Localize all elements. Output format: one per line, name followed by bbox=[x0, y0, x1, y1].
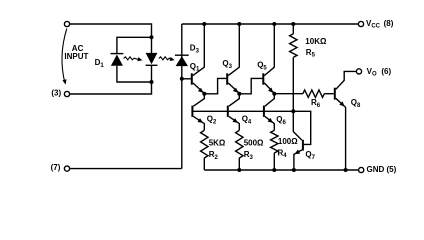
label AC INPUT bbox=[64, 44, 88, 61]
wire R3 to ground rail bbox=[238, 158, 240, 170]
wire common base line bbox=[193, 110, 293, 112]
node Q8-ground bbox=[344, 168, 348, 172]
wire LED box top edge bbox=[117, 36, 152, 38]
photodiode D3 (pointing up) bbox=[176, 56, 188, 66]
wire pin3 to LED cathode node bbox=[70, 82, 152, 94]
transistor Q8 (NPN output) bbox=[335, 71, 357, 170]
node emitter Q3 bbox=[237, 92, 241, 96]
wire LED right branch upper bbox=[151, 37, 153, 54]
AC input arrow arc bbox=[62, 29, 67, 85]
transistor Q1 (NPN) bbox=[192, 67, 205, 93]
wire collector drop Q1 bbox=[203, 24, 205, 68]
wire Vcc rail bbox=[182, 23, 359, 25]
diode D3 cathode bar bbox=[175, 54, 189, 56]
node rail-R5 bbox=[291, 22, 295, 26]
svg-text:10KΩ: 10KΩ bbox=[305, 37, 327, 46]
wire Q1 emitter to Q3 base bbox=[204, 78, 226, 93]
wire LED box bottom edge bbox=[117, 81, 152, 83]
svg-text:(6): (6) bbox=[381, 67, 391, 76]
node rail-Q5 bbox=[272, 22, 276, 26]
node D3-Q1 base junction bbox=[180, 77, 184, 81]
node R4-ground bbox=[272, 168, 276, 172]
resistor R4 body bbox=[271, 130, 278, 153]
wire collector drop Q5 bbox=[273, 24, 275, 68]
wire R5 lower lead bbox=[292, 57, 294, 111]
transistor Q7 (diode-connected NPN, mirrored) bbox=[293, 111, 310, 170]
svg-text:500Ω: 500Ω bbox=[244, 138, 264, 147]
svg-text:100Ω: 100Ω bbox=[278, 137, 298, 146]
transistor Q5 (NPN) bbox=[263, 67, 274, 93]
svg-text:(8): (8) bbox=[384, 19, 394, 28]
terminal GND pin 5 bbox=[359, 167, 364, 172]
wire input top to LED anode node bbox=[70, 24, 152, 37]
wire R5 upper lead bbox=[292, 24, 294, 34]
diode D1b cathode bar bbox=[146, 64, 158, 66]
svg-text:(7): (7) bbox=[51, 163, 61, 172]
node rail-Q1 bbox=[202, 22, 206, 26]
node rail-Q3 bbox=[237, 22, 241, 26]
diode D1a cathode bar bbox=[111, 53, 124, 55]
light arrow LED2 to D3 bbox=[159, 57, 175, 61]
node LED top junction bbox=[150, 35, 154, 39]
transistor Q6 (NPN current mirror) bbox=[264, 94, 274, 131]
node Q7-ground bbox=[292, 168, 296, 172]
wire LED right branch lower bbox=[151, 65, 153, 82]
resistor R5 body bbox=[290, 34, 297, 58]
node R3-ground bbox=[237, 168, 241, 172]
wire R2 to ground rail bbox=[203, 158, 205, 170]
node bias junction bbox=[291, 109, 295, 113]
wire D3 branch vertical bbox=[181, 24, 183, 169]
wire Q5 emitter to R6 bbox=[274, 93, 303, 95]
node emitter Q1 bbox=[202, 92, 206, 96]
terminal pin 3 bbox=[64, 91, 69, 96]
wire LED left branch upper bbox=[116, 37, 118, 54]
wire collector drop Q3 bbox=[238, 24, 240, 68]
wire R6 to Q8 base bbox=[324, 93, 334, 95]
svg-text:INPUT: INPUT bbox=[64, 52, 88, 61]
wire Q1 base lead bbox=[182, 78, 191, 80]
wire Q3 emitter to Q5 base bbox=[239, 78, 262, 93]
transistor Q3 (NPN) bbox=[227, 67, 239, 93]
terminal Vo pin 6 bbox=[356, 69, 361, 74]
svg-text:GND (5): GND (5) bbox=[367, 165, 397, 174]
diode D1a (LED left, pointing up) bbox=[111, 55, 123, 66]
wire LED left branch lower bbox=[116, 66, 118, 83]
diode D1b (LED right, pointing down) bbox=[146, 53, 158, 64]
svg-text:5KΩ: 5KΩ bbox=[209, 138, 226, 147]
wire pin7 rail bbox=[70, 168, 182, 170]
terminal input top-left bbox=[64, 21, 69, 26]
node LED bottom junction bbox=[150, 80, 154, 84]
resistor R2 body bbox=[201, 130, 208, 158]
terminal Vcc pin 8 bbox=[358, 21, 363, 26]
transistor Q4 (NPN current mirror) bbox=[228, 94, 240, 131]
svg-text:(3): (3) bbox=[51, 89, 61, 98]
resistor R6 body bbox=[303, 90, 324, 97]
transistor Q2 (NPN current mirror) bbox=[192, 94, 204, 131]
wire ground rail bbox=[204, 169, 358, 171]
resistor R3 body bbox=[236, 130, 243, 158]
wire R4 to ground rail bbox=[273, 153, 275, 170]
node emitter Q5 bbox=[272, 92, 276, 96]
light arrow LED1 to LED2 bbox=[124, 57, 143, 61]
terminal pin 7 bbox=[64, 166, 69, 171]
